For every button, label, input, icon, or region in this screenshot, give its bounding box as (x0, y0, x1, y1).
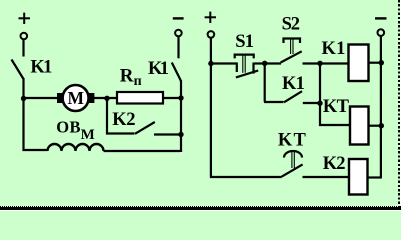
plus terminal symbol (left circuit) (19, 13, 31, 24)
button S2 blade (281, 51, 302, 62)
motor M brushes (57, 93, 63, 103)
svg-text:KT: KT (278, 130, 307, 150)
contact K2 blade (135, 122, 155, 134)
wire junction to S2 (265, 62, 281, 64)
wire from + terminal down (22, 39, 24, 56)
svg-text:K1: K1 (30, 58, 52, 78)
selection border: bottom bar (0, 207, 401, 209)
svg-text:ОВ: ОВ (56, 118, 81, 137)
wire S1 to junction (254, 62, 266, 64)
button S1 right stub (252, 63, 254, 74)
minus terminal symbol (left circuit) (173, 17, 184, 19)
svg-text:M: M (68, 88, 85, 108)
terminal circle + (right circuit) (208, 31, 215, 38)
wire K1 coil to right rail (369, 62, 383, 64)
plus terminal symbol (right circuit) (205, 12, 216, 23)
wire K2 branch horizontal (106, 132, 135, 134)
svg-text:K1: K1 (148, 59, 169, 79)
contact K1 blade (left circuit) (12, 60, 24, 80)
bottom wire of left circuit (24, 98, 48, 150)
button S1 actuator bar (235, 55, 254, 59)
svg-text:K1: K1 (322, 39, 346, 59)
svg-text:п: п (134, 74, 142, 89)
svg-text:S2: S2 (282, 15, 300, 35)
svg-text:K2: K2 (112, 110, 135, 130)
wire motor to resistor (94, 97, 118, 99)
wire K2 fixed side (154, 133, 181, 135)
selection border: right dashed edge (398, 0, 400, 207)
svg-text:М: М (81, 127, 95, 143)
svg-text:R: R (120, 65, 134, 86)
wire KT coil to right rail (369, 125, 382, 127)
wire bottom right corner (180, 150, 182, 152)
left rail of right circuit (211, 38, 282, 177)
wire S2 to junction (303, 62, 321, 64)
selection border: right white edge (400, 0, 401, 207)
junction node (K1 contact / branch rail) (317, 101, 322, 106)
svg-text:S1: S1 (235, 32, 254, 52)
wire from - terminal down (177, 36, 179, 58)
field winding OVm inductor (48, 144, 104, 151)
terminal circle - (left circuit) (175, 30, 182, 37)
selection border: bottom white edge (0, 210, 401, 211)
selection border: bottom sawtooth (0, 206, 401, 208)
svg-text:K2: K2 (323, 154, 345, 174)
relay coil K2 (349, 159, 368, 195)
wire blade to junction (22, 78, 24, 99)
wire junction to motor (24, 97, 59, 99)
K1 parallel contact branch: down wire (265, 64, 284, 103)
wire to S1 (211, 62, 237, 64)
right rail of right circuit (380, 36, 382, 178)
minus terminal symbol (right circuit) (375, 17, 387, 19)
right rail of left circuit (180, 80, 182, 152)
junction node (S2 / K1 parallel tap) (262, 61, 267, 66)
button S1 plunger (242, 55, 244, 73)
contact K1 blade (right, left circuit) (172, 63, 181, 82)
junction node (top branch tap) (208, 61, 213, 66)
junction node (resistor / right rail) (178, 95, 183, 100)
terminal circle - (right circuit) (378, 29, 385, 36)
junction node (KT coil / right rail) (379, 123, 384, 128)
junction node (K1 coil tap) (317, 61, 322, 66)
button S1 bridge blade (236, 71, 258, 78)
wire junction to K1 coil (320, 62, 349, 64)
junction node (K1 coil / right rail) (379, 60, 384, 65)
resistor Rп body (117, 92, 163, 104)
motor M armature circle (63, 85, 89, 111)
relay coil KT (350, 107, 369, 145)
button S2 actuator bar (284, 39, 301, 44)
contact KT blade (bottom branch) (282, 164, 303, 176)
button S1 left stub (236, 63, 238, 73)
terminal circle + (left circuit) (21, 33, 28, 40)
svg-text:KT: KT (323, 97, 350, 117)
wire K2 coil to right rail (368, 176, 382, 178)
wire KT contact fixed side (303, 176, 350, 178)
relay coil K1 (349, 45, 369, 82)
junction node (K2 fixed / right rail) (178, 132, 183, 137)
junction node (left rail / motor) (21, 96, 26, 101)
button S2 plunger (290, 39, 292, 55)
wire inductor to right rail (104, 150, 181, 152)
wire K2 branch down from tap (106, 98, 108, 135)
branch rail down to KT coil (320, 64, 351, 126)
contact KT plunger (291, 152, 293, 169)
junction node (K2 branch tap) (104, 96, 109, 101)
wire resistor to right rail (163, 97, 182, 99)
wire K1 contact fixed side (303, 102, 321, 104)
contact K1 blade (parallel) (284, 91, 302, 102)
contact KT delay arc (284, 151, 302, 158)
